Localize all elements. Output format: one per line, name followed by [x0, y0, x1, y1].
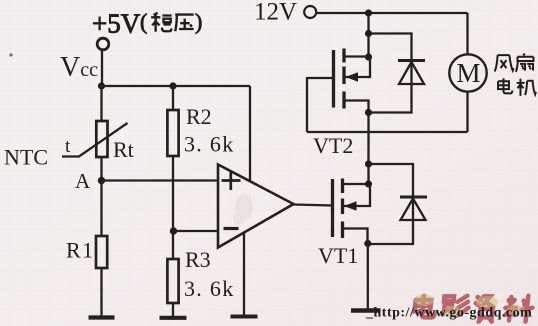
resistor R2 [167, 110, 178, 156]
node diode VD2 tap [365, 30, 372, 37]
svg-text:A: A [75, 169, 91, 193]
watermark red characters [413, 296, 533, 322]
node VT2 drain junction [365, 53, 372, 60]
node VD1 tap [365, 160, 372, 167]
speck [9, 53, 12, 56]
wire VD2 top tap [369, 34, 412, 113]
node VT2 source junction [365, 109, 372, 116]
svg-text:R3: R3 [185, 247, 211, 272]
ground (R3) [160, 316, 187, 320]
VT2 body stub and arrow [344, 57, 370, 77]
op-amp + symbol [222, 171, 241, 190]
faint smudge [233, 194, 253, 225]
ground (VT1) [351, 308, 381, 313]
wire R3 to ground [172, 303, 174, 317]
wire R2 bottom to R3 [172, 156, 174, 259]
wire bus VD1 tap to VT1 drain [367, 164, 369, 184]
wire +5V drop [101, 50, 103, 86]
wire VT1 source to ground [367, 244, 369, 310]
VT2 drain stub [344, 55, 369, 57]
motor M [449, 13, 486, 132]
电 [498, 78, 512, 93]
风 [495, 55, 514, 71]
wire motor top lead [466, 13, 468, 55]
wire op-amp V- to ground [243, 233, 245, 315]
resistor R1 [96, 236, 107, 268]
node VT1 drain junction [365, 180, 372, 187]
wire A to op-amp + input [102, 179, 219, 181]
node VT1 source junction [364, 240, 371, 247]
扇 [516, 54, 534, 72]
VT2 gate lead loop [307, 78, 334, 132]
node A [98, 177, 105, 184]
terminal +5V [97, 38, 109, 50]
diode VD2 [398, 61, 425, 85]
wire +5V rail [102, 85, 251, 87]
NTC arrow [62, 123, 128, 157]
VT2 source stub [344, 101, 369, 113]
svg-text:R2: R2 [186, 104, 212, 129]
svg-text:+5V: +5V [92, 9, 141, 39]
op-amp U1 [218, 165, 294, 248]
node Vcc junction [98, 82, 105, 89]
terminal 12V [304, 6, 316, 18]
svg-text:VT1: VT1 [318, 243, 358, 268]
label 风扇电机 [495, 54, 536, 96]
svg-text:t: t [65, 136, 71, 157]
wire R1 to ground [100, 268, 102, 316]
wire op-amp output [294, 205, 334, 206]
wire R2 top [172, 86, 174, 110]
svg-text:R1: R1 [66, 238, 95, 263]
wire Rt to A [100, 157, 102, 236]
wire motor bottom lead [466, 93, 468, 133]
svg-text:M: M [457, 58, 481, 88]
料 [504, 296, 534, 322]
ground (op-amp) [231, 315, 258, 319]
transistor VT1 [333, 179, 372, 248]
transistor VT2 [307, 49, 372, 133]
wire midpoint to motor [307, 131, 468, 133]
ground (R1) [89, 315, 115, 319]
diode VD1 [400, 197, 427, 220]
svg-text:NTC: NTC [4, 145, 48, 170]
svg-text:3. 6k: 3. 6k [184, 276, 235, 301]
svg-text:Rt: Rt [113, 137, 134, 162]
VT2 channel segments [342, 49, 345, 109]
thermistor Rt [96, 121, 107, 157]
资 [474, 296, 495, 321]
wire VD1 top tap [368, 164, 413, 244]
node 12V bus junction [365, 9, 372, 16]
机 [517, 79, 536, 96]
VT1 gate line [331, 179, 334, 237]
node R2 top junction [169, 82, 176, 89]
node R2-R3 junction [170, 227, 177, 234]
wire to op-amp - input [174, 230, 219, 232]
resistor R3 [167, 259, 178, 303]
label +5V(稳压) [92, 9, 202, 39]
wire op-amp V+ feed [249, 86, 251, 182]
wire bus VT2 source to VD1 tap [367, 113, 369, 165]
VT1 channel segments [341, 179, 344, 239]
电 [414, 296, 437, 318]
svg-text:_http://www.go-gddq.com: _http://www.go-gddq.com [365, 306, 532, 321]
svg-text:12V: 12V [254, 0, 297, 26]
watermark highlight patches [414, 294, 525, 318]
VT2 gate line [332, 50, 335, 108]
wire Vcc to Rt [100, 86, 102, 121]
svg-text:VT2: VT2 [313, 133, 353, 158]
svg-text:3. 6k: 3. 6k [184, 132, 235, 157]
wire 12V rail [316, 12, 467, 14]
op-amp - symbol [224, 227, 239, 230]
VT1 body stub and arrow [343, 184, 371, 206]
svg-text:(: ( [140, 9, 147, 34]
svg-text:): ) [195, 9, 202, 34]
影 [442, 296, 469, 316]
VT1 drain stub [343, 183, 369, 185]
VT1 source stub [343, 229, 368, 244]
wire 12V bus to VT2 drain [367, 13, 369, 57]
